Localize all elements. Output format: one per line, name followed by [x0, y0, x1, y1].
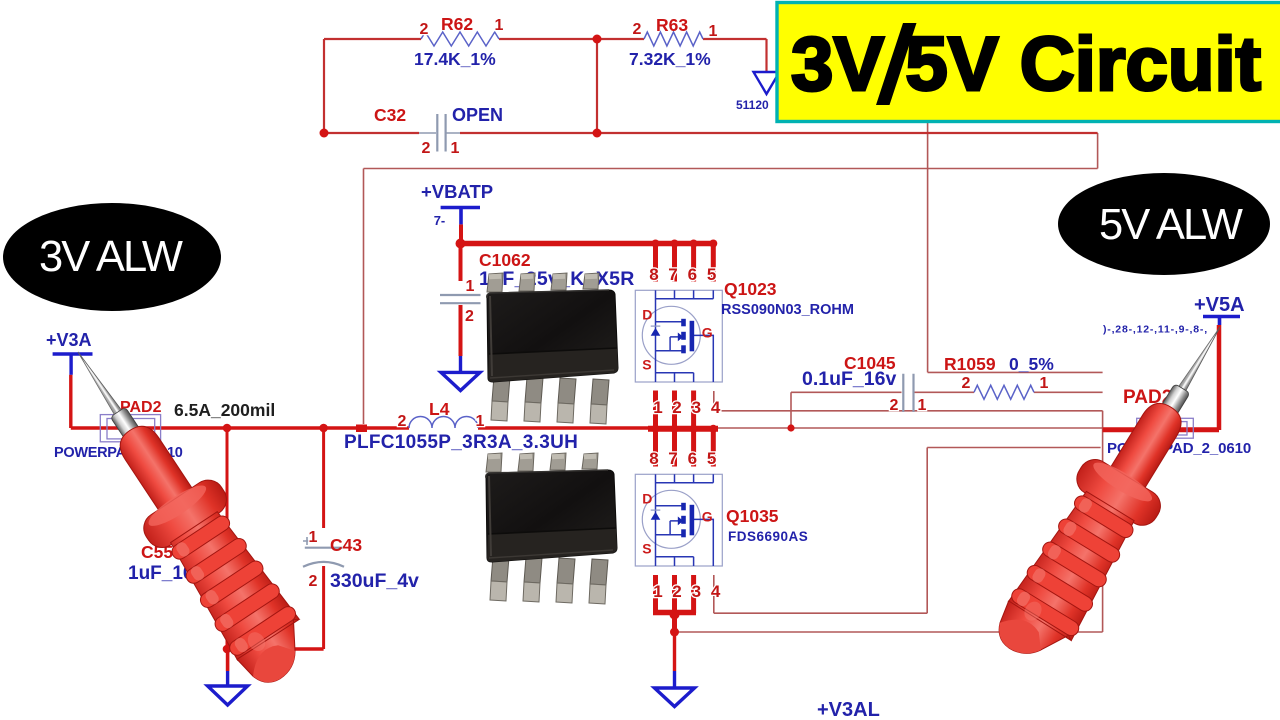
svg-text:PLFC1055P_3R3A_3.3UH: PLFC1055P_3R3A_3.3UH: [344, 432, 578, 453]
svg-text:1: 1: [653, 582, 662, 601]
svg-text:2: 2: [672, 582, 681, 601]
svg-text:1: 1: [709, 23, 718, 40]
svg-text:C32: C32: [374, 105, 406, 125]
svg-text:C1062: C1062: [479, 250, 531, 270]
svg-text:+V3AL: +V3AL: [817, 699, 880, 720]
svg-text:)-,28-,12-,11-,9-,8-,: )-,28-,12-,11-,9-,8-,: [1103, 324, 1208, 336]
svg-text:2: 2: [309, 573, 318, 590]
svg-text:6: 6: [688, 449, 697, 468]
svg-text:51120: 51120: [736, 98, 769, 112]
svg-text:3V ALW: 3V ALW: [39, 233, 183, 281]
svg-text:2: 2: [398, 413, 407, 430]
svg-text:0.1uF_16v: 0.1uF_16v: [802, 368, 896, 390]
svg-text:2: 2: [420, 21, 429, 38]
svg-text:C43: C43: [330, 535, 362, 555]
svg-text:7.32K_1%: 7.32K_1%: [629, 49, 711, 69]
svg-text:4: 4: [711, 398, 721, 417]
svg-text:2: 2: [422, 140, 431, 157]
svg-text:1: 1: [495, 17, 504, 34]
svg-text:3V 5V Circuit: 3V 5V Circuit: [791, 22, 1261, 107]
svg-text:1: 1: [918, 397, 927, 414]
svg-text:RSS090N03_ROHM: RSS090N03_ROHM: [721, 302, 854, 318]
svg-text:1: 1: [653, 398, 662, 417]
svg-text:L4: L4: [429, 399, 450, 419]
svg-text:0_5%: 0_5%: [1009, 354, 1054, 374]
svg-text:1: 1: [476, 413, 485, 430]
svg-text:2: 2: [633, 21, 642, 38]
svg-text:2: 2: [962, 375, 971, 392]
svg-text:1: 1: [466, 278, 475, 295]
svg-text:3: 3: [692, 582, 701, 601]
svg-text:7-: 7-: [434, 213, 446, 228]
svg-text:6: 6: [688, 265, 697, 284]
svg-text:+V5A: +V5A: [1194, 294, 1245, 316]
svg-text:+V3A: +V3A: [46, 330, 92, 350]
svg-text:R1059: R1059: [944, 354, 996, 374]
svg-text:5V ALW: 5V ALW: [1099, 201, 1243, 249]
svg-text:4: 4: [711, 582, 721, 601]
svg-text:2: 2: [890, 397, 899, 414]
svg-text:17.4K_1%: 17.4K_1%: [414, 49, 496, 69]
svg-text:R62: R62: [441, 14, 473, 34]
svg-text:8: 8: [649, 449, 658, 468]
svg-text:Q1035: Q1035: [726, 506, 779, 526]
svg-text:2: 2: [672, 398, 681, 417]
svg-text:1: 1: [451, 140, 460, 157]
svg-text:5: 5: [707, 265, 716, 284]
svg-text:R63: R63: [656, 15, 688, 35]
svg-text:7: 7: [668, 265, 677, 284]
svg-text:3: 3: [692, 398, 701, 417]
svg-text:8: 8: [649, 265, 658, 284]
svg-text:330uF_4v: 330uF_4v: [330, 570, 419, 592]
svg-text:1: 1: [309, 529, 318, 546]
svg-text:5: 5: [707, 449, 716, 468]
svg-text:7: 7: [668, 449, 677, 468]
svg-text:OPEN: OPEN: [452, 105, 503, 125]
svg-text:6.5A_200mil: 6.5A_200mil: [174, 400, 275, 420]
svg-text:FDS6690AS: FDS6690AS: [728, 529, 808, 544]
svg-text:2: 2: [465, 308, 474, 325]
svg-text:1: 1: [1040, 375, 1049, 392]
svg-text:Q1023: Q1023: [724, 279, 777, 299]
svg-text:+VBATP: +VBATP: [421, 181, 493, 202]
